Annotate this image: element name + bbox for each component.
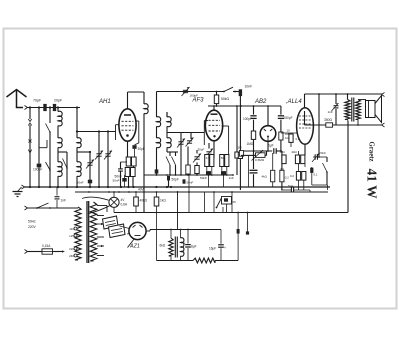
svg-text:20pF: 20pF bbox=[54, 99, 63, 103]
antenna bbox=[7, 90, 27, 108]
wire filter bottom drop bbox=[156, 213, 158, 261]
node link junctions bbox=[76, 130, 78, 132]
ground bus bbox=[24, 186, 330, 188]
capacitor 20pF bbox=[53, 104, 56, 111]
wire field leads bbox=[170, 230, 172, 239]
potentiometer volume bbox=[256, 153, 266, 158]
wire filter bottom bbox=[157, 260, 194, 262]
node bus106 dots bbox=[216, 105, 218, 107]
capacitor 8uF bbox=[187, 230, 189, 244]
svg-text:AF3: AF3 bbox=[192, 98, 205, 104]
trimmer mark near 20nF bbox=[312, 154, 319, 163]
wire drop 3 with switch bbox=[49, 108, 51, 124]
wire AF3 bottom bbox=[213, 141, 215, 158]
node ground bus dots bbox=[29, 186, 31, 188]
wire x310 drop bbox=[309, 190, 311, 192]
wire grid cluster bbox=[127, 148, 129, 157]
svg-text:41 W: 41 W bbox=[365, 169, 380, 200]
wire trimmer drop x99 bbox=[98, 132, 100, 188]
wire AH1 anode up bbox=[127, 92, 129, 109]
mains terminal a bbox=[25, 206, 28, 210]
tap 110 bbox=[74, 227, 77, 230]
capacitor tone out bbox=[335, 94, 337, 104]
tube AF3 grid dashes bbox=[209, 119, 221, 121]
tube AL4 grid dashes bbox=[299, 115, 311, 117]
speaker magnet bbox=[366, 101, 376, 118]
inductor IFT1 primary lower bbox=[157, 138, 161, 148]
capacitor 50pF IF bbox=[167, 176, 170, 181]
svg-text:50nF: 50nF bbox=[200, 176, 207, 180]
tube AB2 anode marks bbox=[264, 129, 266, 131]
resistor AL4 row1 a bbox=[282, 155, 286, 164]
svg-text:350Ω: 350Ω bbox=[324, 118, 333, 122]
wire IFT1 sec mid bbox=[166, 126, 168, 138]
wire trimmer drop x90 bbox=[89, 152, 91, 187]
resistor diode load upper bbox=[279, 132, 283, 140]
wire heater line y212.5 bbox=[114, 212, 348, 214]
resistor grid R d bbox=[131, 168, 136, 177]
capacitor 5uF bbox=[273, 148, 275, 154]
switch band arm 2 bbox=[63, 159, 68, 169]
wire x214b drop bbox=[213, 192, 215, 213]
wire IFT1 primary bottom bbox=[156, 147, 158, 175]
fuse bbox=[42, 249, 53, 254]
svg-text:8μF: 8μF bbox=[191, 245, 197, 249]
trimmer padder x108 bbox=[105, 153, 110, 155]
svg-text:AH1: AH1 bbox=[98, 99, 111, 105]
wire heater to AZ1 b bbox=[127, 233, 130, 236]
speaker cone bbox=[375, 96, 382, 123]
resistor 40k bbox=[134, 197, 139, 206]
tube AB2 envelope bbox=[260, 126, 276, 142]
tube AF3 right lead bbox=[222, 125, 229, 127]
resistor grid R b bbox=[132, 157, 137, 166]
wire front-end top link bbox=[77, 131, 116, 133]
wire IFT1 primary top bbox=[156, 92, 158, 118]
resistor diode load right bbox=[280, 170, 284, 182]
svg-text:50nF: 50nF bbox=[77, 181, 84, 185]
heater winding block 1 bbox=[103, 216, 119, 229]
inductor IFT1 secondary upper bbox=[167, 117, 171, 127]
capacitor cath blob bbox=[310, 168, 313, 173]
capacitor 16uF bbox=[220, 230, 222, 244]
connector marks x30 bbox=[28, 140, 31, 154]
node rail40 dots bbox=[88, 191, 90, 193]
wire output top y94 bbox=[305, 93, 383, 95]
wire coil2 tap bbox=[76, 147, 78, 152]
resistor row AF3 c bbox=[220, 155, 224, 167]
resistor grid R c bbox=[125, 168, 130, 177]
capacitor 50nF IF bbox=[183, 179, 186, 183]
trimmer IFT1 a bbox=[178, 141, 183, 143]
tube AH1 envelope bbox=[119, 109, 136, 141]
svg-text:0,2: 0,2 bbox=[296, 137, 300, 141]
trimmer IFT1 b bbox=[187, 140, 192, 142]
wire x209 bbox=[208, 143, 210, 149]
wire coil2 top lead bbox=[76, 108, 78, 139]
wire cluster to ground bbox=[128, 177, 130, 188]
resistor x241 small bbox=[238, 153, 242, 159]
wire 250pF res down bbox=[280, 140, 282, 151]
wire mains switch line bbox=[27, 207, 78, 209]
tap 240 bbox=[74, 254, 77, 257]
svg-text:50kΩ: 50kΩ bbox=[221, 97, 229, 101]
speaker terminal top bbox=[382, 93, 385, 97]
svg-text:0,6A: 0,6A bbox=[121, 203, 128, 207]
capacitor 100pF det bbox=[253, 106, 255, 115]
svg-text:10nF: 10nF bbox=[245, 85, 253, 89]
wire IFT1 trimmer link bbox=[167, 132, 204, 134]
wire U jog bbox=[38, 140, 40, 148]
resistor field zig bbox=[169, 238, 173, 256]
svg-text:125: 125 bbox=[69, 234, 74, 238]
svg-text:10: 10 bbox=[287, 129, 291, 133]
connector break on wire 1 bbox=[28, 119, 31, 126]
wire AZ1 out bbox=[146, 230, 150, 232]
tube AZ1 electrodes bbox=[133, 225, 136, 228]
wire pot ground bbox=[248, 156, 250, 187]
wire AL4 cath bbox=[304, 144, 306, 155]
capacitor row blob a bbox=[206, 171, 211, 175]
resistor AL4 row2 b bbox=[302, 172, 306, 181]
inductor choke coil bbox=[181, 238, 184, 257]
capacitor 100pF bbox=[37, 164, 42, 168]
wire AL4 top bbox=[304, 94, 306, 108]
wire 5uF right bbox=[276, 150, 282, 152]
svg-text:30pF: 30pF bbox=[138, 147, 145, 151]
svg-text:25: 25 bbox=[233, 200, 237, 204]
svg-text:2kΩ: 2kΩ bbox=[292, 150, 298, 154]
wire x204 drop bbox=[204, 192, 206, 213]
switch tone AL4 bbox=[326, 157, 328, 162]
wire coil1 mid bbox=[57, 126, 59, 138]
svg-text:240: 240 bbox=[69, 254, 74, 258]
capacitor 50nF bbox=[118, 168, 123, 170]
resistor AL4 row2 a bbox=[296, 172, 300, 181]
svg-text:1kΩ: 1kΩ bbox=[280, 150, 286, 154]
resistor det bbox=[251, 131, 255, 139]
svg-text:50nF: 50nF bbox=[187, 181, 194, 185]
wire antenna drop 1 bbox=[29, 108, 31, 120]
wire 50pF IF bbox=[168, 181, 170, 188]
svg-text:50pF: 50pF bbox=[172, 178, 179, 182]
tube AF3 cathode mark bbox=[213, 135, 215, 137]
tap 125 bbox=[74, 234, 77, 237]
wire x237 low bbox=[236, 158, 238, 175]
trimmer cap 50pF bbox=[87, 162, 92, 164]
wire y185 link bbox=[312, 184, 328, 186]
resistor x237 bbox=[235, 152, 239, 158]
wire top line y90 bbox=[157, 91, 225, 93]
wire stub x247 bbox=[247, 213, 249, 232]
wire x189 drop bbox=[188, 175, 190, 213]
wire sec bottom bbox=[357, 120, 359, 126]
wire drop 2 to 100pF bbox=[38, 108, 40, 164]
wire B+ bus y106 bbox=[208, 105, 281, 107]
svg-text:50nF: 50nF bbox=[113, 179, 120, 183]
pilot lamp bbox=[109, 197, 119, 207]
wire AH1 grid bottom bbox=[127, 141, 129, 148]
inductor IFT1 primary upper bbox=[157, 117, 161, 127]
wire fuse line bbox=[27, 251, 42, 253]
node mid rail dots bbox=[156, 174, 158, 176]
trimmer AF3 cath b bbox=[206, 151, 211, 153]
capacitor 10nF bbox=[239, 89, 242, 96]
tube AF3 top bar bbox=[211, 113, 218, 115]
wire osc coil down bbox=[143, 113, 145, 212]
wire trimmer drop x188 bbox=[190, 133, 192, 140]
svg-text:0,3: 0,3 bbox=[206, 156, 210, 160]
svg-text:20nF: 20nF bbox=[319, 151, 326, 155]
wire box stub bbox=[222, 207, 224, 213]
svg-text:0,2: 0,2 bbox=[290, 174, 294, 178]
tube AF3 left bracket bbox=[204, 120, 208, 122]
capacitor 1nF mains bbox=[56, 187, 58, 196]
switch IF arm 1 bbox=[169, 152, 171, 156]
svg-text:1kΩ: 1kΩ bbox=[160, 199, 166, 203]
mid rail AVC bbox=[144, 174, 233, 176]
svg-text:16μF: 16μF bbox=[209, 247, 216, 251]
secondary arrows bbox=[101, 223, 104, 225]
wire trimmer drop x181 bbox=[180, 133, 182, 176]
transformer output primary bbox=[347, 94, 349, 100]
wire IFT1 sec bottom bbox=[166, 147, 168, 152]
wire AB2 top bbox=[267, 106, 269, 126]
wire coil1 tap bbox=[57, 147, 59, 152]
switch box bbox=[222, 197, 232, 205]
inductor osc coil x144 bbox=[143, 92, 145, 104]
svg-text:100pF: 100pF bbox=[243, 117, 252, 121]
capacitor col1 foot bbox=[155, 169, 159, 173]
resistor 50k anode bbox=[214, 95, 218, 104]
transformer secondary stubs bbox=[97, 205, 107, 207]
inductor IFT1 secondary lower bbox=[167, 138, 171, 148]
wire ag mid bbox=[272, 153, 274, 170]
wire output bottom y125 bbox=[305, 124, 327, 126]
svg-text:4kΩ: 4kΩ bbox=[262, 175, 268, 179]
resistor grid R a bbox=[126, 157, 131, 166]
supply rail 40V bbox=[75, 191, 328, 193]
wire grid links bbox=[281, 132, 297, 134]
switch band arm 1b bbox=[46, 162, 51, 170]
resistor row AF3 d bbox=[225, 155, 229, 167]
capacitor 250pF bbox=[280, 106, 282, 115]
trimmer cap x99 bbox=[96, 153, 101, 155]
wire AZ1 bottom lead bbox=[128, 239, 135, 248]
wire filter top bbox=[150, 229, 221, 231]
svg-text:100pF: 100pF bbox=[33, 168, 42, 172]
svg-text:1M: 1M bbox=[238, 146, 243, 150]
wire coil1 top lead bbox=[57, 108, 59, 112]
tube AL4 envelope bbox=[297, 108, 314, 145]
svg-text:1MΩ: 1MΩ bbox=[247, 142, 254, 146]
inductor antenna coil L1 upper bbox=[58, 111, 62, 126]
resistor bleeder zig bbox=[193, 258, 215, 263]
wire speaker top bbox=[358, 99, 366, 101]
svg-text:50k: 50k bbox=[221, 156, 226, 160]
wire pot leads bbox=[241, 154, 256, 156]
wire lamp bottom bbox=[113, 207, 115, 212]
capacitor 70pF bbox=[43, 104, 46, 111]
switch IF arm 2 bbox=[175, 152, 177, 156]
capacitor 30pF bbox=[132, 145, 136, 149]
wire x197 bbox=[196, 150, 198, 154]
svg-text:220: 220 bbox=[69, 247, 74, 251]
svg-text:0,5MΩ: 0,5MΩ bbox=[255, 158, 265, 162]
ground connector chevron bbox=[22, 185, 25, 189]
wire det out y151 bbox=[241, 150, 272, 152]
wire IFT1 primary mid bbox=[156, 126, 158, 138]
capacitor row blob b bbox=[221, 171, 226, 175]
trimmer AF3 cath a bbox=[194, 156, 199, 158]
svg-text:AB2: AB2 bbox=[254, 99, 267, 105]
wire x236 drop bbox=[237, 213, 239, 230]
wire top antenna bus bbox=[28, 107, 81, 109]
svg-text:Graetz: Graetz bbox=[368, 142, 375, 162]
wire fuse to tap bbox=[53, 251, 63, 253]
resistor 350 bbox=[326, 123, 333, 127]
wire 100pF to ground bus bbox=[38, 168, 40, 188]
resistor AL4 row1 b bbox=[295, 155, 299, 164]
tube AH1 right bracket bbox=[136, 120, 139, 122]
svg-text:50Hz: 50Hz bbox=[28, 220, 36, 224]
wire x319 drop bbox=[318, 94, 320, 157]
svg-text:40kΩ: 40kΩ bbox=[140, 199, 148, 203]
tube AH1 left bracket bbox=[116, 124, 120, 126]
transformer output secondary bbox=[356, 100, 361, 120]
svg-text:30pF: 30pF bbox=[198, 148, 205, 152]
tube AH1 top electrode bbox=[124, 114, 131, 116]
switch tone top bbox=[224, 87, 233, 91]
resistor row AF3 a bbox=[205, 155, 209, 167]
inductor L1 lower bbox=[58, 162, 62, 177]
inductor L2 lower bbox=[77, 162, 81, 177]
wire x241 drop bbox=[239, 96, 241, 191]
capacitor 50nF a bbox=[88, 180, 92, 184]
svg-text:AZ1: AZ1 bbox=[129, 244, 140, 250]
resistor x197 bbox=[195, 166, 199, 174]
wire res1k leads bbox=[156, 192, 158, 197]
tube AF3 envelope bbox=[205, 110, 222, 141]
svg-text:220V: 220V bbox=[28, 225, 37, 229]
svg-text:250pF: 250pF bbox=[284, 116, 293, 120]
svg-text:1nF: 1nF bbox=[61, 199, 67, 203]
heater winding block 2 bbox=[109, 224, 126, 238]
svg-text:+: + bbox=[184, 242, 186, 246]
ground symbol bbox=[18, 187, 22, 192]
capacitor det ground bbox=[250, 169, 258, 171]
svg-text:,ALL4: ,ALL4 bbox=[286, 99, 302, 105]
svg-text:70pF: 70pF bbox=[33, 99, 42, 103]
switch band arm 1 bbox=[46, 124, 51, 133]
wire right res down bbox=[281, 182, 283, 190]
resistor ag mid bbox=[271, 170, 275, 182]
wire coil2 bottom bbox=[76, 176, 78, 187]
wire heater wavy b bbox=[88, 206, 110, 214]
tube AZ1 envelope bbox=[129, 222, 146, 239]
tube AH1 cathode bbox=[126, 134, 129, 137]
wire AF3 grid cap bbox=[213, 106, 215, 110]
svg-text:5μF: 5μF bbox=[268, 144, 274, 148]
resistor row AF3 b bbox=[210, 155, 214, 167]
wire heater to AZ1 a bbox=[120, 226, 130, 229]
mains terminal b bbox=[25, 250, 28, 254]
resistor IF extra bbox=[186, 165, 190, 174]
capacitor 20nF out bbox=[314, 154, 316, 159]
trimmer 160pF bbox=[183, 89, 188, 91]
wire anode top link bbox=[128, 91, 145, 93]
transformer mains core bbox=[86, 201, 88, 263]
choke core bbox=[174, 237, 176, 258]
wire right box edge bbox=[347, 121, 349, 213]
trimmer arrow tone bbox=[332, 103, 339, 111]
node antenna bus junctions bbox=[29, 106, 31, 108]
speaker terminal bottom bbox=[382, 123, 385, 127]
wire AB2 bottom bbox=[267, 141, 269, 151]
capacitor 50nF b bbox=[122, 178, 126, 182]
svg-text:0,1: 0,1 bbox=[314, 173, 318, 177]
tap 220 bbox=[74, 247, 77, 250]
transformer mains primary bbox=[75, 207, 81, 260]
inductor coil L2 upper bbox=[77, 138, 81, 148]
wire res40k leads bbox=[135, 192, 137, 197]
capacitor 5nF bottom bbox=[290, 188, 292, 193]
transformer output core bbox=[351, 98, 353, 122]
svg-text:0,2: 0,2 bbox=[285, 176, 289, 180]
svg-text:6kΩ: 6kΩ bbox=[160, 244, 166, 248]
svg-text:0,15A: 0,15A bbox=[42, 244, 51, 248]
resistor on x241 bbox=[239, 151, 243, 157]
wire heater wavy a bbox=[82, 197, 109, 200]
wire cap drop x108 bbox=[107, 132, 109, 188]
resistor AL4 row1 c bbox=[301, 155, 305, 164]
transformer mains secondary bbox=[90, 202, 97, 261]
wire lamp top bbox=[113, 192, 115, 197]
wire det down bbox=[253, 140, 255, 169]
wire IFT1 sec top stub bbox=[166, 112, 168, 117]
node y94 dots bbox=[318, 93, 320, 95]
resistor AB2-AL4 b bbox=[289, 134, 293, 142]
svg-text:+: + bbox=[224, 246, 226, 250]
wire 50k to bus bbox=[216, 92, 218, 96]
wire coil1 bottom bbox=[57, 176, 59, 187]
inductor L1 mid bbox=[58, 138, 62, 148]
wire det cap down bbox=[253, 174, 255, 187]
wire 50nF drop bbox=[120, 162, 122, 169]
tube AH1 grid dashes bbox=[122, 120, 134, 122]
wire bandswitch drop x67 bbox=[66, 152, 68, 187]
svg-text:110: 110 bbox=[69, 227, 74, 231]
wire B+ feed bbox=[177, 192, 179, 230]
wire x232 drop bbox=[231, 192, 233, 213]
svg-text:1nF: 1nF bbox=[229, 176, 234, 180]
wire x237 drop bbox=[236, 106, 238, 152]
resistor 1k bbox=[154, 197, 159, 206]
wire AL4 anode side bbox=[304, 111, 306, 125]
antenna connector chevron bbox=[25, 106, 28, 110]
wire IFT1 sec top bbox=[166, 112, 168, 117]
switch mains bbox=[37, 203, 49, 208]
wire row links bbox=[206, 167, 208, 172]
svg-text:5nF: 5nF bbox=[288, 184, 293, 188]
